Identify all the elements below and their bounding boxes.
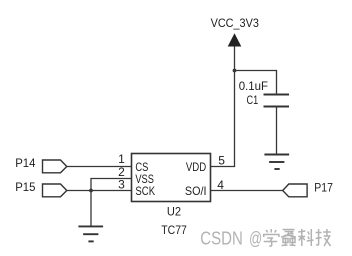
svg-text:P14: P14	[15, 156, 36, 170]
svg-text:VDD: VDD	[186, 160, 207, 174]
svg-text:3: 3	[118, 178, 125, 192]
svg-text:5: 5	[218, 153, 225, 167]
svg-text:SO/I: SO/I	[185, 184, 207, 198]
svg-text:CSDN: CSDN	[200, 229, 243, 249]
svg-text:P17: P17	[314, 181, 333, 195]
svg-text:C1: C1	[247, 93, 259, 107]
svg-text:P15: P15	[15, 180, 36, 194]
svg-text:@: @	[249, 229, 262, 249]
svg-text:0.1uF: 0.1uF	[239, 79, 268, 93]
svg-text:SCK: SCK	[135, 184, 155, 198]
svg-text:TC77: TC77	[161, 223, 187, 237]
svg-text:1: 1	[118, 152, 125, 166]
svg-text:4: 4	[217, 178, 224, 192]
svg-text:VCC_3V3: VCC_3V3	[211, 16, 260, 30]
svg-text:U2: U2	[167, 204, 181, 218]
